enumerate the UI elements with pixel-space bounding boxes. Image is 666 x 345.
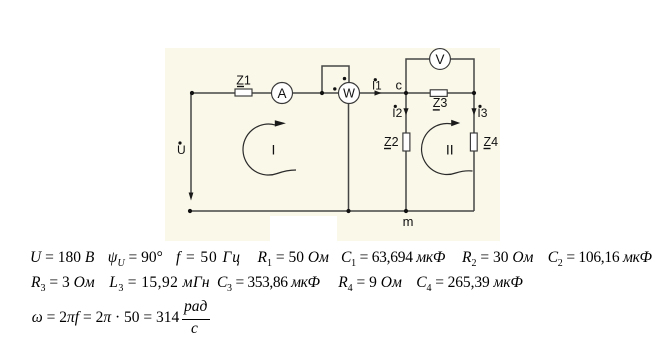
svg-text:Z4: Z4 bbox=[484, 135, 499, 149]
wire voltmeter loop bbox=[406, 59, 474, 93]
wire left vertical (source U) bbox=[190, 93, 192, 194]
resistor box Z4 bbox=[470, 133, 477, 151]
wire branch Z2: node c to node m bbox=[405, 93, 407, 211]
omega formula line 3 bbox=[32, 310, 179, 326]
arrow I2 down bbox=[403, 108, 408, 115]
node a dot bbox=[190, 91, 194, 95]
wire wattmeter voltage coil bracket bbox=[322, 66, 349, 93]
svg-text:V: V bbox=[435, 52, 444, 67]
voltmeter V circle bbox=[430, 49, 451, 70]
node m dot bbox=[404, 209, 408, 213]
node junction before W bbox=[320, 91, 324, 95]
polarity dot wattmeter voltage coil bbox=[343, 77, 346, 80]
svg-text:II: II bbox=[446, 142, 454, 158]
wire top: node a to node right bbox=[192, 92, 474, 94]
svg-text:Z1: Z1 bbox=[236, 74, 251, 88]
node wattmeter-bottom dot bbox=[346, 209, 350, 213]
arrow U (source direction, down) bbox=[189, 193, 194, 201]
svg-text:I1: I1 bbox=[372, 80, 382, 92]
schematic beige panel bbox=[165, 48, 500, 241]
resistor box Z2 bbox=[403, 133, 410, 151]
wire bottom bbox=[190, 210, 474, 212]
svg-text:Z3: Z3 bbox=[433, 96, 448, 110]
fraction rad/s bbox=[184, 299, 207, 315]
arrow I3 down bbox=[471, 108, 476, 115]
svg-text:U: U bbox=[177, 143, 186, 157]
node c dot bbox=[404, 91, 408, 95]
wattmeter W circle bbox=[339, 83, 360, 104]
svg-text:I: I bbox=[272, 142, 276, 158]
parameters line 2 bbox=[31, 275, 95, 293]
node right-top dot bbox=[472, 91, 476, 95]
ammeter A1 circle bbox=[272, 83, 293, 104]
svg-text:Z2: Z2 bbox=[384, 135, 399, 149]
svg-text:I2: I2 bbox=[392, 106, 402, 120]
svg-text:A: A bbox=[277, 86, 286, 101]
wire wattmeter to bottom bbox=[348, 104, 350, 212]
wire branch Z4: right vertical bbox=[473, 93, 475, 211]
arrow I1 on top wire bbox=[375, 90, 382, 95]
resistor box Z1 bbox=[235, 89, 252, 96]
loop I arc with arrow bbox=[243, 124, 296, 175]
svg-text:m: m bbox=[403, 214, 414, 229]
white notch in panel bottom bbox=[270, 216, 337, 241]
svg-text:c: c bbox=[396, 77, 403, 92]
svg-text:W: W bbox=[343, 87, 355, 101]
resistor box Z3 bbox=[430, 90, 447, 97]
node bottom-left dot bbox=[188, 209, 192, 213]
svg-text:I3: I3 bbox=[477, 106, 487, 120]
loop II arc with arrow bbox=[422, 124, 473, 175]
parameters line 1 bbox=[30, 250, 94, 266]
polarity dot wattmeter current coil bbox=[333, 87, 336, 90]
